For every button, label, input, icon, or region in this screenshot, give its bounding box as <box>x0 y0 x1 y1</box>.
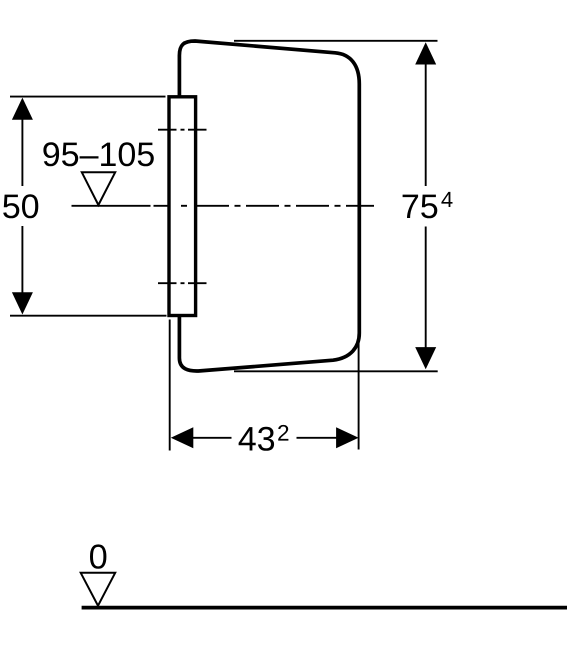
dim 75 extension line top <box>234 40 438 42</box>
cistern body outline <box>179 41 359 371</box>
dim 43 line right <box>297 437 346 439</box>
dim 50 extension line top <box>10 96 166 98</box>
text 0 floor level <box>90 544 106 568</box>
text 50 <box>3 194 38 218</box>
text 43 sup 2 <box>239 425 289 451</box>
dim 50 line upper <box>21 110 23 186</box>
dim 50 arrow up <box>12 98 33 120</box>
level triangle 0 <box>81 573 116 606</box>
floor line <box>82 606 567 610</box>
dim 43 arrow right <box>336 427 359 448</box>
level triangle 95-105 <box>82 172 115 205</box>
dim 50 line lower <box>21 226 23 303</box>
dim 43 extension line left <box>169 320 171 451</box>
main centerline dash left <box>154 205 171 207</box>
dim 75 extension line bottom <box>234 370 438 372</box>
lower rail centerline <box>158 282 207 284</box>
dim 75 arrow down <box>415 347 436 369</box>
main centerline dot in rail <box>181 205 187 207</box>
dim 50 arrow down <box>12 292 33 314</box>
main centerline dash-dot right <box>196 205 374 207</box>
dim 75 line upper <box>425 55 427 186</box>
main centerline datum segment <box>72 205 151 207</box>
text 75 sup 4 <box>403 192 453 218</box>
dim 43 arrow left <box>171 427 194 448</box>
label 95-105 <box>43 142 153 166</box>
mounting rail <box>169 97 196 316</box>
dim 75 arrow up <box>415 42 436 64</box>
upper rail centerline <box>158 129 207 131</box>
dim 50 extension line bottom <box>10 315 167 317</box>
dim 75 line lower <box>425 227 427 357</box>
dim 43 line left <box>185 437 232 439</box>
dim 43 extension line right <box>358 342 360 450</box>
